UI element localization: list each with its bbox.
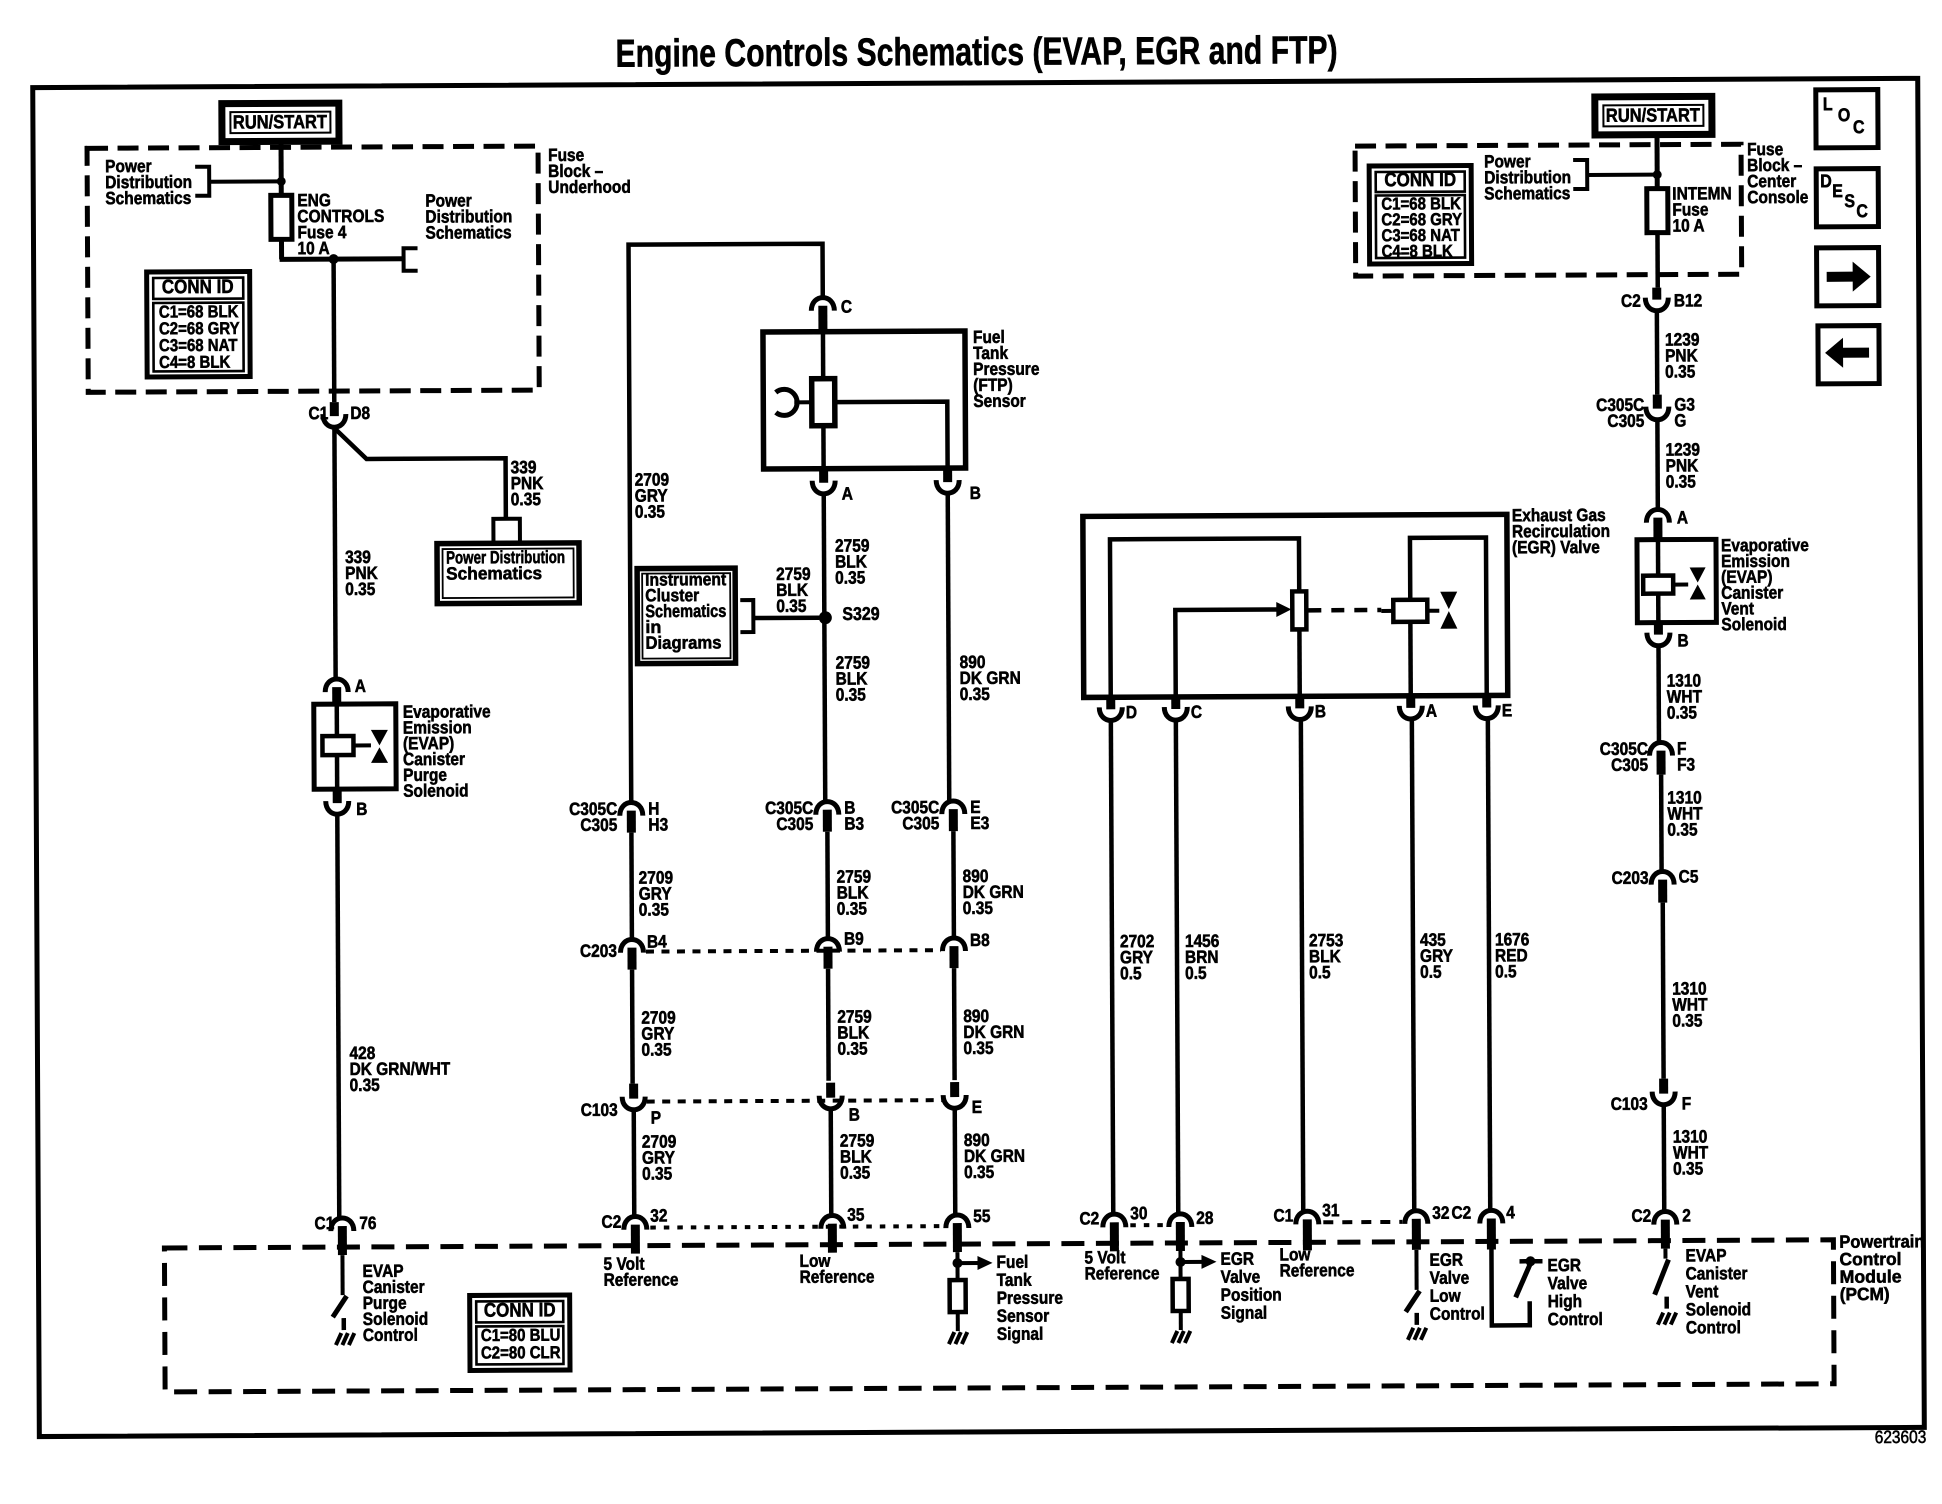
EGR wiper arrow from pin C: [1175, 610, 1277, 697]
svg-text:C: C: [841, 297, 852, 317]
svg-text:D: D: [1126, 702, 1137, 722]
Powertrain Control Module PCM dashed box: [164, 1240, 1834, 1392]
connector pin A (EVAP vent solenoid): [1646, 509, 1669, 522]
svg-text:B12: B12: [1674, 290, 1703, 310]
vent solenoid valve symbol: [1690, 567, 1706, 582]
connector C2 pin B12: [1652, 288, 1661, 300]
connector pin D (EGR valve): [1106, 697, 1115, 709]
connector C305C/C305 pin F/F3: [1649, 742, 1672, 755]
svg-text:Control: Control: [1686, 1317, 1741, 1338]
fuse block - underhood dashed box: [87, 146, 539, 392]
svg-text:C305: C305: [776, 814, 813, 834]
svg-text:B: B: [970, 483, 981, 503]
connector pin A (EGR valve): [1406, 696, 1415, 708]
connector C203 pin B9: [816, 939, 839, 952]
svg-text:CONN ID: CONN ID: [162, 275, 234, 298]
PCM driver switch EGR low: [1414, 1250, 1418, 1290]
svg-text:0.35: 0.35: [837, 1039, 867, 1059]
PCM input network EGR position: [1178, 1251, 1182, 1279]
splice S329: [819, 611, 832, 624]
svg-text:P: P: [651, 1108, 661, 1128]
svg-text:C305: C305: [1607, 411, 1644, 431]
svg-text:0.35: 0.35: [1666, 471, 1696, 491]
wire INTEMN fuse down to C2 B12: [1655, 233, 1660, 288]
svg-text:32: 32: [1432, 1203, 1449, 1223]
svg-text:E3: E3: [970, 813, 989, 833]
svg-text:Signal: Signal: [997, 1324, 1044, 1345]
svg-text:Reference: Reference: [1085, 1263, 1160, 1284]
svg-text:Control: Control: [1430, 1303, 1485, 1324]
svg-text:Underhood: Underhood: [548, 177, 631, 198]
EGR link dashes: [1308, 608, 1381, 613]
svg-text:Schematics: Schematics: [105, 188, 191, 209]
svg-text:Control: Control: [1548, 1309, 1603, 1330]
PCM driver switch EVAP purge: [340, 1255, 344, 1295]
svg-text:E: E: [1502, 700, 1512, 720]
connector C2 pin 32b (PCM): [1405, 1211, 1428, 1224]
svg-text:A: A: [1677, 507, 1688, 527]
connector C203 pin C5: [1651, 871, 1674, 884]
wire B to PCM 35 (2759 BLK): [829, 1111, 834, 1217]
connector C103 pin F: [1659, 1079, 1668, 1094]
svg-text:Reference: Reference: [1279, 1260, 1354, 1281]
wire E3 to B8 (890 DK GRN): [951, 831, 956, 939]
wire G to vent solenoid A (1239 PNK): [1655, 422, 1660, 511]
svg-text:C103: C103: [1611, 1094, 1648, 1114]
wire F to PCM 2 (1310 WHT): [1661, 1107, 1666, 1213]
svg-text:76: 76: [359, 1213, 376, 1233]
connector pin B (EVAP purge solenoid): [333, 789, 342, 803]
svg-text:C5: C5: [1679, 866, 1699, 886]
svg-text:C2: C2: [1621, 291, 1641, 311]
svg-text:0.35: 0.35: [1667, 819, 1697, 839]
svg-text:Control: Control: [363, 1325, 418, 1346]
wire P to PCM 32 (2709 GRY): [632, 1112, 637, 1218]
svg-text:E: E: [972, 1097, 982, 1117]
CONN ID table (PCM): [470, 1295, 570, 1370]
junction on RUN/START feed: [277, 177, 286, 186]
svg-text:0.5: 0.5: [1120, 963, 1142, 983]
wire bracket to INTEMN feed: [1587, 173, 1657, 177]
wire fuse output down: [279, 239, 284, 259]
svg-text:Solenoid: Solenoid: [403, 780, 468, 801]
wire B4 to P (2709 GRY): [630, 970, 635, 1084]
svg-text:C2: C2: [1451, 1203, 1471, 1223]
svg-text:0.5: 0.5: [1309, 962, 1331, 982]
svg-text:Signal: Signal: [1221, 1303, 1268, 1324]
svg-text:C203: C203: [580, 941, 617, 961]
off-page bracket (center console): [1573, 160, 1587, 189]
svg-text:Diagrams: Diagrams: [645, 632, 721, 653]
svg-text:B8: B8: [970, 930, 990, 950]
ground (PCM internal, EGR low): [1408, 1328, 1414, 1340]
EGR valve box: [1083, 514, 1508, 697]
FTP sensor transducer element: [821, 332, 826, 379]
wire RUN/START to fuse: [279, 141, 284, 195]
svg-text:B: B: [1677, 630, 1688, 650]
ground (PCM internal, FTP signal): [949, 1332, 955, 1344]
C203 harness dashed tie line: [646, 950, 941, 951]
svg-text:B9: B9: [844, 929, 864, 949]
wire EGR E to PCM 4 (1676 RED): [1488, 720, 1490, 1211]
svg-text:C: C: [1853, 116, 1865, 137]
EGR solenoid coil: [1381, 609, 1393, 613]
svg-text:S329: S329: [842, 603, 879, 625]
EGR right frame to pin E: [1410, 537, 1487, 695]
power node RUN/START (left): [222, 103, 339, 142]
CONN ID table (fuse block underhood): [147, 272, 251, 378]
svg-text:A: A: [355, 676, 366, 696]
reference box Instrument Cluster Schematics in Diagrams: [637, 568, 735, 663]
svg-text:0.5: 0.5: [1185, 963, 1207, 983]
svg-text:B: B: [849, 1105, 860, 1125]
svg-text:F: F: [1682, 1093, 1692, 1113]
connector pin B (EVAP vent solenoid): [1654, 623, 1663, 635]
wire FTP B down (890 DK GRN): [948, 495, 950, 802]
svg-text:0.35: 0.35: [963, 898, 993, 918]
svg-text:Reference: Reference: [604, 1269, 679, 1290]
wire E to PCM 55 (890 DK GRN): [952, 1110, 957, 1216]
wire EVAP purge solenoid to PCM 76: [337, 816, 339, 1219]
svg-text:2: 2: [1682, 1205, 1691, 1225]
svg-text:C203: C203: [1612, 868, 1649, 888]
wire from bracket to RUN/START feed: [209, 179, 281, 183]
junction INTEMN feed: [1653, 170, 1662, 179]
wire RUN/START to INTEMN fuse: [1654, 135, 1659, 189]
fuse INTEMN 10A: [1647, 189, 1668, 233]
svg-text:Console: Console: [1747, 187, 1808, 208]
svg-text:S: S: [1844, 190, 1855, 211]
svg-text:35: 35: [847, 1205, 864, 1225]
ground (PCM internal, EGR position): [1172, 1331, 1178, 1343]
svg-text:0.35: 0.35: [511, 489, 541, 509]
svg-text:A: A: [842, 484, 853, 504]
connector C103 pin B: [826, 1083, 835, 1098]
connector C2 pin 32 (PCM): [624, 1216, 647, 1229]
svg-text:G: G: [1674, 410, 1686, 430]
svg-text:10 A: 10 A: [297, 238, 329, 258]
connector C1 pin 76 (PCM): [331, 1218, 354, 1231]
svg-text:55: 55: [973, 1206, 990, 1226]
ground (PCM internal, purge driver): [336, 1333, 342, 1345]
connector pin C (EGR valve): [1171, 697, 1180, 709]
connector C103 pin E: [950, 1082, 959, 1097]
connector C2 pin 2 (PCM): [1654, 1211, 1677, 1224]
svg-text:0.35: 0.35: [960, 684, 990, 704]
ground (PCM internal, vent driver): [1658, 1313, 1664, 1325]
wire C5 to C103 F (1310 WHT): [1660, 903, 1665, 1079]
svg-text:RUN/START: RUN/START: [1606, 104, 1700, 126]
off-page bracket to Power Distribution Schematics: [195, 167, 209, 196]
svg-text:0.35: 0.35: [1672, 1010, 1702, 1030]
svg-text:RUN/START: RUN/START: [233, 111, 327, 133]
PCM pull resistor (FTP signal): [950, 1280, 966, 1312]
off-page bracket to Instrument Cluster: [740, 600, 753, 632]
svg-text:B3: B3: [844, 814, 864, 834]
svg-text:0.5: 0.5: [1495, 961, 1517, 981]
PCM input network FTP signal: [955, 1252, 959, 1280]
icon LOC: [1816, 90, 1878, 148]
EVAP canister vent solenoid box: [1637, 539, 1716, 622]
icon prev arrow: [1818, 326, 1879, 384]
svg-text:C2: C2: [1079, 1208, 1099, 1228]
purge solenoid valve symbol: [371, 730, 388, 746]
svg-text:Engine Controls Schematics (EV: Engine Controls Schematics (EVAP, EGR an…: [615, 28, 1337, 75]
junction to C1 drop: [329, 254, 339, 264]
svg-text:0.35: 0.35: [641, 1039, 671, 1059]
svg-text:0.35: 0.35: [840, 1162, 870, 1182]
PCM dashes 31-32: [1323, 1220, 1402, 1224]
wire C1 D8 down to EVAP purge solenoid: [334, 429, 335, 680]
fuse F4 ENG CONTROLS 10A: [271, 195, 292, 239]
power node RUN/START (right): [1595, 96, 1712, 135]
svg-text:(PCM): (PCM): [1840, 1284, 1890, 1305]
off-page bracket down to Power Distribution Schematics box: [493, 519, 520, 542]
svg-text:Schematics: Schematics: [1484, 183, 1570, 204]
wire junction to connector C1 D8: [331, 259, 336, 402]
svg-text:C1: C1: [1273, 1205, 1293, 1225]
connector pin E (EGR valve): [1482, 695, 1491, 707]
connector C1 pin D8: [330, 402, 339, 416]
connector pin B (FTP sensor): [943, 468, 952, 482]
svg-text:C305: C305: [1611, 755, 1648, 775]
svg-text:A: A: [1426, 701, 1437, 721]
wire from instrument cluster bracket to S329: [753, 615, 819, 620]
svg-text:0.35: 0.35: [963, 1038, 993, 1058]
svg-text:E: E: [1832, 180, 1843, 201]
wire FTP A down (2759 BLK): [824, 496, 826, 803]
wire EGR B to PCM 31 (2753 BLK): [1301, 721, 1303, 1212]
svg-text:C2=80 CLR: C2=80 CLR: [481, 1343, 561, 1363]
svg-text:Reference: Reference: [800, 1266, 875, 1287]
Fuel Tank Pressure FTP sensor box: [763, 331, 966, 469]
wire B3 to B9 (2759 BLK): [825, 832, 830, 940]
connector C2 pin 30 (PCM): [1103, 1214, 1126, 1227]
PCM C2 dashed tie line: [650, 1226, 946, 1227]
svg-text:D: D: [1820, 170, 1832, 191]
svg-text:B: B: [1315, 701, 1326, 721]
svg-text:CONN ID: CONN ID: [1384, 168, 1456, 191]
svg-text:Sensor: Sensor: [973, 391, 1026, 412]
svg-text:32: 32: [650, 1205, 667, 1225]
svg-text:10 A: 10 A: [1672, 215, 1704, 235]
svg-text:L: L: [1823, 93, 1833, 114]
wire fuse output horizontal run: [280, 256, 404, 262]
svg-text:0.35: 0.35: [350, 1075, 380, 1095]
svg-text:B4: B4: [647, 931, 668, 951]
connector C103 pin P: [629, 1084, 638, 1099]
wire B12 to C305 (1239 PNK): [1655, 313, 1660, 395]
svg-text:C103: C103: [581, 1100, 618, 1120]
wire vent B down (1310 WHT): [1656, 648, 1661, 744]
wire EGR A to PCM 32 (435 GRY): [1412, 721, 1414, 1212]
EGR position sensor network: [1110, 538, 1300, 697]
reference box Power Distribution Schematics: [437, 543, 579, 604]
svg-text:C4=8 BLK: C4=8 BLK: [1382, 242, 1454, 262]
svg-text:Schematics: Schematics: [446, 563, 542, 584]
svg-text:0.35: 0.35: [776, 596, 806, 616]
wire B8 to E (890 DK GRN): [952, 968, 957, 1080]
EGR solenoid to pin A wire: [1408, 622, 1413, 696]
wire 5V reference run (2709 GRY) up and over to FTP C: [629, 244, 826, 804]
svg-text:C305: C305: [902, 813, 939, 833]
EGR valve pintle symbol: [1440, 592, 1457, 610]
connector pin A (EVAP purge solenoid): [325, 679, 348, 692]
wire EGR C to PCM 28 (1456 BRN): [1176, 722, 1178, 1215]
icon next arrow: [1817, 248, 1879, 306]
wire B9 to B (2759 BLK): [826, 969, 831, 1081]
connector pin A (FTP sensor): [819, 469, 828, 483]
FTP pressure input symbol: [776, 389, 797, 415]
PCM dashes 30-28: [1130, 1223, 1166, 1227]
FTP wiper output wire: [835, 402, 948, 469]
svg-text:623603: 623603: [1875, 1427, 1927, 1448]
svg-text:0.35: 0.35: [964, 1162, 994, 1182]
C103 harness dashed tie line: [647, 1100, 943, 1101]
connector C203 pin B8: [942, 938, 965, 951]
vent solenoid coil: [1656, 540, 1661, 576]
svg-text:C: C: [1191, 702, 1202, 722]
svg-text:0.5: 0.5: [1420, 962, 1442, 982]
CONN ID table (fuse block center console): [1369, 166, 1471, 264]
wire EGR D to PCM 30 (2702 GRY): [1111, 722, 1113, 1215]
svg-text:Solenoid: Solenoid: [1721, 614, 1786, 635]
connector C2 pin 28 (PCM): [1169, 1214, 1192, 1227]
svg-text:H3: H3: [648, 814, 668, 834]
svg-text:C: C: [1856, 200, 1868, 221]
connector C305C/C305 pin G3/G: [1653, 395, 1662, 409]
svg-text:0.35: 0.35: [1667, 702, 1697, 722]
svg-text:D8: D8: [350, 403, 370, 423]
svg-text:0.35: 0.35: [1673, 1158, 1703, 1178]
connector C203 pin B4: [620, 939, 643, 952]
connector C2 pin 55 (PCM): [946, 1215, 969, 1228]
svg-text:0.35: 0.35: [835, 568, 865, 588]
svg-text:(EGR) Valve: (EGR) Valve: [1512, 537, 1600, 558]
svg-text:CONN ID: CONN ID: [484, 1298, 556, 1321]
PCM driver switch EGR high: [1491, 1249, 1529, 1325]
connector C305C/C305 pin B/B3: [816, 802, 839, 815]
svg-text:Schematics: Schematics: [425, 222, 511, 243]
svg-text:0.35: 0.35: [837, 899, 867, 919]
PCM driver switch EVAP vent: [1663, 1249, 1667, 1259]
branch wire to power distribution reference: [335, 428, 505, 519]
wire F3 to C5 (1310 WHT): [1659, 775, 1664, 873]
svg-text:C2: C2: [1631, 1206, 1651, 1226]
svg-text:C4=8 BLK: C4=8 BLK: [159, 353, 231, 373]
connector C2 pin 35 (PCM): [821, 1216, 844, 1229]
svg-text:4: 4: [1506, 1202, 1515, 1222]
icon DESC: [1816, 169, 1878, 227]
svg-text:O: O: [1838, 104, 1851, 125]
EVAP canister purge solenoid SOL1 box: [314, 704, 396, 789]
svg-text:C305: C305: [580, 815, 617, 835]
svg-text:0.35: 0.35: [1665, 361, 1695, 381]
connector C305C/C305 pin E/E3: [942, 801, 965, 814]
svg-text:C1: C1: [314, 1213, 334, 1233]
svg-text:31: 31: [1322, 1200, 1339, 1220]
svg-text:0.35: 0.35: [836, 685, 866, 705]
svg-text:0.35: 0.35: [639, 899, 669, 919]
purge solenoid coil: [335, 704, 340, 736]
connector pin C (FTP sensor): [811, 298, 834, 311]
off-page bracket to Power Distribution Schematics (right): [404, 248, 418, 271]
svg-text:C1: C1: [308, 403, 328, 423]
svg-text:0.35: 0.35: [635, 501, 665, 521]
svg-text:F3: F3: [1677, 754, 1695, 774]
svg-text:0.35: 0.35: [345, 579, 375, 599]
svg-text:B: B: [356, 799, 367, 819]
connector pin B (EGR valve): [1295, 696, 1304, 708]
svg-text:30: 30: [1130, 1203, 1147, 1223]
PCM pull resistor (EGR position): [1173, 1279, 1189, 1311]
svg-text:28: 28: [1196, 1208, 1213, 1228]
connector C2 pin 4 (PCM): [1480, 1210, 1503, 1223]
svg-text:C2: C2: [601, 1212, 621, 1232]
svg-text:0.35: 0.35: [642, 1163, 672, 1183]
connector C305C/C305 pin H/H3: [620, 802, 643, 815]
wire H3 to B4 (2709 GRY): [629, 833, 634, 941]
fuse block - center console dashed box: [1355, 144, 1742, 276]
connector C1 pin 31 (PCM): [1296, 1211, 1319, 1224]
